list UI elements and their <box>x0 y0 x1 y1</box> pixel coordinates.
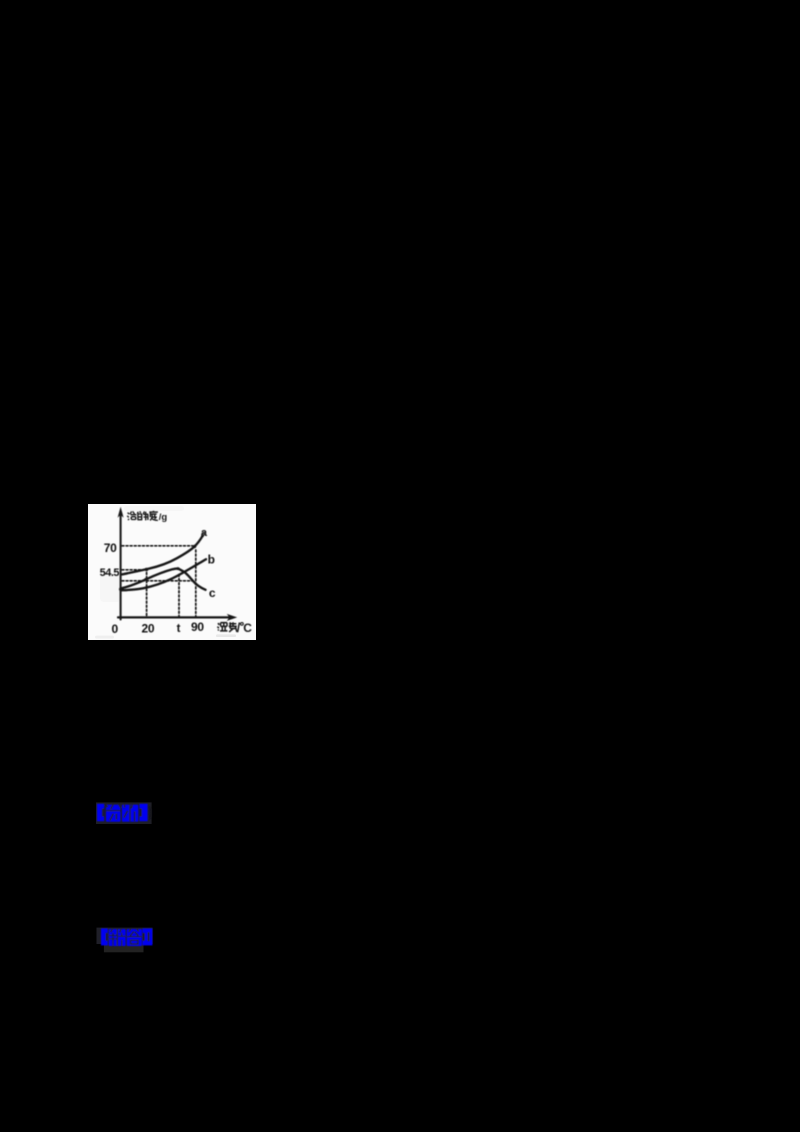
blue label 【解答】 <box>94 920 164 956</box>
x-axis <box>118 616 230 618</box>
svg-text:c: c <box>209 586 216 600</box>
svg-text:54.5: 54.5 <box>100 567 120 579</box>
dotted line y=54.5 <box>122 569 141 571</box>
svg-text:0: 0 <box>112 622 119 636</box>
curve b <box>121 559 206 590</box>
curve c <box>121 568 206 589</box>
left bracket <box>101 928 108 945</box>
right bracket <box>142 928 152 945</box>
x-axis arrowhead <box>227 614 237 621</box>
right bracket <box>139 804 147 821</box>
vertical dotted at 90 <box>195 550 197 616</box>
char 分 <box>106 805 121 822</box>
blob at curve a end <box>201 534 204 537</box>
y-axis title 溶解度/g (drawn strokes) <box>127 510 167 522</box>
dot c@20 <box>144 578 147 581</box>
svg-text:70: 70 <box>104 541 117 555</box>
scan noise smudges <box>216 634 236 637</box>
y-axis <box>120 513 122 620</box>
svg-text:20: 20 <box>142 621 155 635</box>
chart white background <box>88 504 256 640</box>
left bracket <box>97 804 104 821</box>
svg-text:t: t <box>177 623 181 635</box>
blob at curve b/c start <box>119 587 123 591</box>
svg-text:/g: /g <box>159 512 168 523</box>
x-axis title 温度/℃ (drawn strokes) <box>217 621 252 635</box>
vertical dotted at 20 <box>146 572 148 616</box>
curve a <box>121 536 202 574</box>
char 解 <box>109 929 126 946</box>
char 析 <box>122 805 138 822</box>
dot a@20 <box>145 568 148 571</box>
svg-text:b: b <box>208 552 215 566</box>
vertical dotted at t <box>178 574 180 616</box>
svg-text:C: C <box>243 621 252 635</box>
blue label 【分析】 <box>94 799 160 829</box>
dotted line y=70 <box>122 545 193 547</box>
dark halo boxes <box>97 928 153 944</box>
dot c peak <box>177 567 180 570</box>
dot a@90 <box>193 544 196 547</box>
lower dotted line <box>122 580 192 582</box>
char 答 <box>127 929 142 946</box>
jpeg ghost bracket <box>149 807 152 820</box>
svg-text:90: 90 <box>191 620 204 634</box>
solubility chart figure <box>88 504 256 640</box>
y-axis arrowhead <box>118 507 124 518</box>
